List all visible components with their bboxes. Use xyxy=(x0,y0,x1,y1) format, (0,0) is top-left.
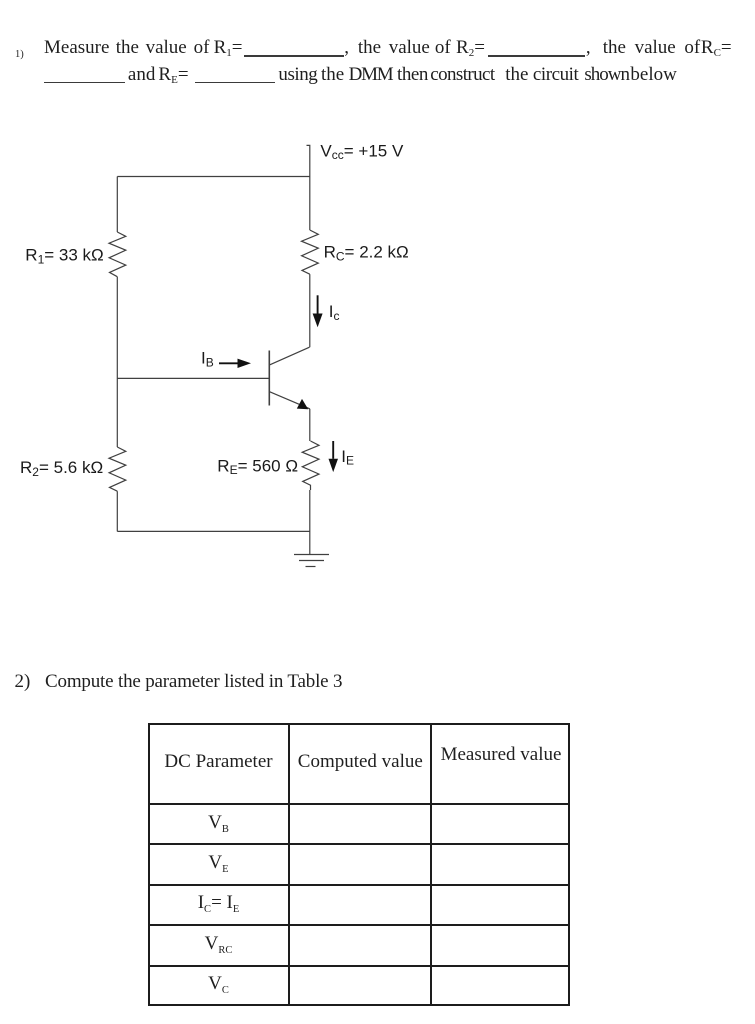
item number 2) xyxy=(15,671,31,693)
svg-text:Ic: Ic xyxy=(329,302,340,323)
wire: collector rail xyxy=(309,274,311,347)
header: Computed value xyxy=(290,751,431,773)
row label VC xyxy=(148,973,289,995)
svg-text:IB: IB xyxy=(201,349,214,370)
svg-text:R2= 5.6 kΩ: R2= 5.6 kΩ xyxy=(20,458,103,479)
table horizontal line row2 xyxy=(148,884,571,886)
current arrow Ic xyxy=(313,295,323,327)
svg-text:R1= 33 kΩ: R1= 33 kΩ xyxy=(25,246,103,267)
wire: top horizontal xyxy=(117,176,309,178)
label RC = 2.2 kOhm xyxy=(324,243,409,264)
table 3 border xyxy=(148,723,571,1007)
label R1 = 33 kOhm xyxy=(25,246,103,267)
transistor Q1 emitter arrowhead xyxy=(297,399,308,409)
table horizontal line header xyxy=(148,803,571,805)
label IB xyxy=(201,349,214,370)
table horizontal line row1 xyxy=(148,843,571,845)
current arrow IB xyxy=(219,359,251,368)
item number 1) xyxy=(15,50,24,61)
paragraph line 2 xyxy=(128,61,155,88)
transistor Q1 base bar xyxy=(268,351,270,406)
label RE = 560 Ohm xyxy=(217,456,298,477)
row label VRC xyxy=(148,933,289,955)
wire: emitter to RE xyxy=(309,409,311,441)
power rail Vcc tick xyxy=(307,145,310,230)
wire: left rail middle xyxy=(116,277,118,447)
paragraph line 1 xyxy=(44,34,109,61)
blank for R2 value xyxy=(488,55,585,57)
row label VE xyxy=(148,852,289,874)
svg-text:Vcc= +15 V: Vcc= +15 V xyxy=(320,141,404,162)
label Vcc = +15 V xyxy=(320,141,404,162)
resistor R1 xyxy=(109,232,126,277)
wire: left rail top xyxy=(116,177,118,233)
label R2 = 5.6 kOhm xyxy=(20,458,103,479)
transistor Q1 emitter lead xyxy=(270,392,310,409)
header: Measured value xyxy=(432,744,571,766)
svg-text:RE= 560 Ω: RE= 560 Ω xyxy=(217,456,298,477)
table horizontal line row3 xyxy=(148,924,571,926)
resistor RE xyxy=(302,441,319,490)
table horizontal line row4 xyxy=(148,965,571,967)
transistor Q1 collector lead xyxy=(270,347,310,365)
wire: bottom horizontal xyxy=(117,530,309,532)
label IE xyxy=(341,447,354,468)
blank for RC value xyxy=(44,82,125,84)
circuit schematic xyxy=(0,130,470,590)
section 2 heading xyxy=(45,671,342,693)
table vertical line 1 xyxy=(288,723,290,1007)
ground symbol xyxy=(294,555,329,567)
svg-text:IE: IE xyxy=(341,447,354,468)
blank for R1 value xyxy=(244,55,344,57)
label Ic xyxy=(329,302,340,323)
wire: RE to ground xyxy=(309,490,311,555)
current arrow IE xyxy=(329,441,339,472)
wire: base xyxy=(117,377,269,379)
svg-text:RC= 2.2 kΩ: RC= 2.2 kΩ xyxy=(324,243,409,264)
table vertical line 2 xyxy=(430,723,432,1007)
row label VB xyxy=(148,812,289,834)
blank for RE value xyxy=(195,82,276,84)
header: DC Parameter xyxy=(148,751,289,773)
row label IC = IE xyxy=(148,892,289,914)
resistor RC xyxy=(302,230,319,274)
resistor R2 xyxy=(109,447,126,491)
wire: left rail bottom xyxy=(116,491,118,531)
